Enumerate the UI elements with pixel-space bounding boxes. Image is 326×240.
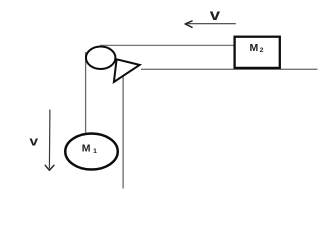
svg-text:v: v: [30, 134, 39, 149]
svg-text:v: v: [210, 5, 221, 23]
